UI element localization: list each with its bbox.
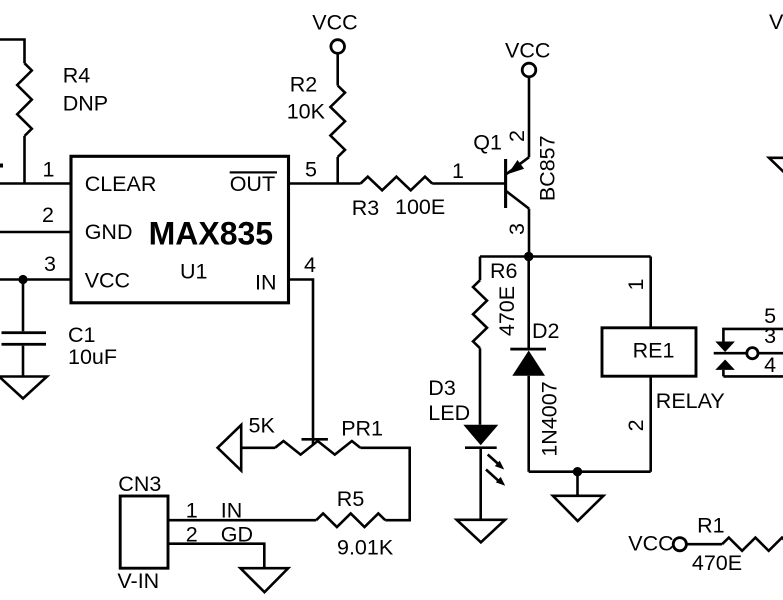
resistor R4 — [17, 63, 32, 136]
wire collector node row — [480, 255, 651, 258]
svg-text:RELAY: RELAY — [656, 389, 725, 413]
svg-text:RE1: RE1 — [633, 339, 675, 363]
resistor R3 — [361, 177, 433, 191]
svg-text:2: 2 — [186, 523, 198, 547]
svg-text:VCC: VCC — [312, 11, 357, 35]
D3 light arrow 2 — [486, 470, 505, 486]
svg-text:CLEAR: CLEAR — [85, 172, 157, 196]
svg-text:VCC: VCC — [505, 39, 550, 63]
svg-text:LED: LED — [428, 401, 470, 425]
wire top-left to R4 — [0, 40, 25, 64]
svg-text:R6: R6 — [490, 259, 518, 283]
svg-text:VCC: VCC — [769, 10, 783, 34]
capacitor C1 — [2, 331, 47, 334]
wire to R6 — [479, 257, 482, 281]
svg-text:3: 3 — [44, 252, 56, 276]
relay contact NO arrow — [715, 360, 735, 370]
node junction pin3/C1 — [18, 275, 27, 284]
D3 light arrow 1 — [488, 455, 505, 470]
diode D2 — [510, 348, 546, 351]
svg-text:D2: D2 — [532, 319, 559, 343]
wire relay pin 2 — [649, 376, 652, 472]
svg-text:R5: R5 — [337, 487, 365, 511]
wire CN3 pin1 to R5 — [168, 519, 316, 522]
ground C1 — [0, 377, 47, 399]
wire VCC to R1 — [687, 543, 723, 546]
wire Q1 collector down — [528, 209, 531, 257]
svg-text:2: 2 — [624, 419, 648, 431]
wire D3 to ground — [479, 448, 482, 520]
wire ground to PR1 — [241, 446, 275, 449]
wire relay pin 1 — [649, 257, 652, 328]
ground PR1 left — [218, 425, 242, 471]
wire C1 to ground — [22, 346, 25, 377]
wire node to D2 — [527, 257, 530, 349]
svg-text:1: 1 — [452, 159, 464, 183]
wire node to ground — [576, 472, 579, 496]
svg-text:9.01K: 9.01K — [337, 535, 394, 559]
wire pin 1 CLEAR — [0, 182, 71, 185]
transistor Q1 — [506, 157, 529, 208]
relay RE1 coil box — [602, 328, 696, 376]
resistor R1 — [722, 538, 783, 551]
svg-text:D3: D3 — [428, 376, 456, 400]
svg-text:GD: GD — [221, 523, 253, 547]
ground right edge — [769, 158, 783, 181]
svg-text:1: 1 — [624, 279, 648, 291]
svg-text:C1: C1 — [68, 323, 95, 347]
svg-text:CN3: CN3 — [118, 472, 161, 496]
svg-text:3: 3 — [505, 223, 529, 235]
potentiometer PR1 body — [275, 441, 360, 455]
wire R4 to pin1 — [23, 136, 26, 184]
potentiometer PR1 wiper bar — [302, 438, 328, 441]
svg-text:BC857: BC857 — [536, 135, 560, 201]
svg-text:R1: R1 — [697, 513, 724, 537]
wire pin 2 GND — [0, 231, 71, 234]
resistor R6 — [473, 280, 487, 348]
ground D3 — [457, 520, 505, 543]
svg-text:DNP: DNP — [63, 91, 108, 115]
ground D2/relay — [553, 496, 604, 521]
svg-text:MAX835: MAX835 — [149, 216, 274, 252]
svg-text:V-IN: V-IN — [117, 569, 159, 593]
svg-text:VCC: VCC — [628, 532, 673, 556]
node junction collector — [524, 252, 533, 261]
svg-text:R3: R3 — [352, 196, 380, 220]
wire node to C1 — [22, 280, 25, 332]
wire pin 3 VCC — [0, 278, 71, 281]
svg-text:5K: 5K — [249, 413, 276, 437]
svg-text:10K: 10K — [287, 100, 326, 124]
svg-text:5: 5 — [305, 158, 317, 182]
svg-text:R4: R4 — [63, 63, 91, 87]
svg-text:IN: IN — [255, 271, 277, 295]
relay contact common pin 3 — [714, 352, 747, 355]
svg-text:470E: 470E — [692, 551, 742, 575]
wire bottom row — [529, 470, 651, 473]
svg-text:2: 2 — [505, 130, 529, 142]
wire PR1 to R5 — [360, 448, 409, 520]
svg-text:GND: GND — [85, 220, 133, 244]
svg-text:U1: U1 — [180, 259, 207, 283]
wire R6 to D3 — [479, 348, 482, 425]
svg-text:10uF: 10uF — [68, 345, 117, 369]
svg-text:470E: 470E — [495, 286, 519, 336]
svg-text:2: 2 — [42, 203, 54, 227]
relay contact pin 5 wire — [723, 329, 783, 342]
svg-text:1: 1 — [186, 499, 198, 523]
svg-text:VCC: VCC — [85, 269, 130, 293]
edge mark left — [0, 164, 3, 168]
relay contact NC arrow — [715, 342, 735, 353]
svg-text:3: 3 — [764, 324, 776, 348]
svg-text:Q1: Q1 — [473, 130, 502, 154]
wire R3 to Q1 base — [432, 182, 504, 185]
wire R2 to pin5 net — [336, 157, 339, 184]
relay contact pin 4 wire — [723, 370, 783, 377]
ground CN3 — [240, 568, 288, 592]
resistor R5 — [316, 513, 385, 527]
wire CN3 pin2 to ground — [168, 544, 264, 569]
op-amp U1 MAX835 box — [71, 156, 289, 302]
wire pin 5 OUT — [289, 182, 361, 185]
svg-text:1N4007: 1N4007 — [537, 381, 561, 456]
svg-text:100E: 100E — [395, 195, 445, 219]
wire pin 4 IN to wiper — [289, 280, 314, 445]
svg-text:4: 4 — [304, 253, 316, 277]
svg-text:PR1: PR1 — [341, 416, 383, 440]
svg-text:OUT: OUT — [230, 172, 275, 196]
svg-text:IN: IN — [221, 499, 243, 523]
connector CN3 box — [120, 496, 168, 568]
wire D2 to bottom row — [527, 376, 530, 472]
wire VCC to R2 — [336, 53, 339, 85]
svg-text:1: 1 — [43, 158, 55, 182]
resistor R2 — [330, 86, 345, 158]
svg-text:R2: R2 — [290, 73, 317, 97]
svg-text:4: 4 — [764, 353, 776, 377]
wire Q1 emitter to VCC — [528, 77, 531, 157]
LED D3 — [463, 425, 498, 445]
node junction bottom ground — [573, 467, 582, 476]
